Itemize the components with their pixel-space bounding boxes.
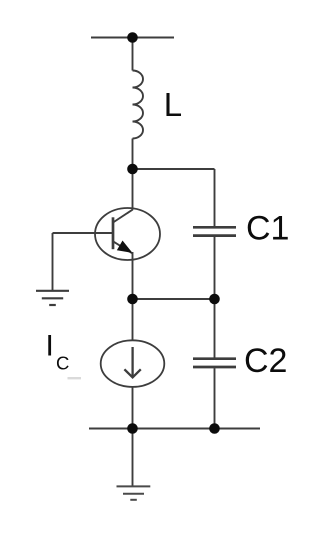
wire: collector (node B to transistor) [132, 169, 134, 210]
wire: current source to bottom rail [132, 387, 134, 429]
wire: C1 bottom plate to node D [214, 237, 216, 299]
wire: bottom rail to ground [132, 429, 134, 486]
wire: base to ground [52, 233, 54, 290]
ground (base) [36, 291, 69, 305]
wire: node D to C2 top plate [214, 299, 216, 358]
node F (bottom rail right) [209, 423, 220, 434]
ground (bottom) [117, 486, 151, 499]
wire: node C to node D [133, 298, 215, 300]
label I_C [46, 330, 82, 380]
svg-text:C2: C2 [244, 342, 287, 380]
wire: rail to inductor top [132, 38, 134, 71]
node A (top rail) [127, 32, 138, 43]
node C (emitter / current source) [127, 294, 138, 305]
node D (C1 / C2 junction) [209, 294, 220, 305]
wire: C2 bottom plate to bottom rail [214, 368, 216, 428]
svg-text:L: L [164, 86, 182, 123]
inductor L [133, 71, 144, 139]
wire: inductor bottom to node B [132, 139, 134, 170]
svg-text:C1: C1 [246, 210, 289, 248]
node E (bottom rail left) [127, 423, 138, 434]
wire: emitter [132, 252, 134, 299]
capacitor C2 [193, 359, 236, 367]
svg-text:C: C [56, 353, 69, 374]
wire: bottom rail [89, 428, 260, 430]
node B (inductor / collector / C1) [127, 164, 138, 175]
wire: down to C1 top plate [214, 169, 216, 226]
capacitor C1 [193, 227, 236, 235]
svg-text:I: I [46, 330, 54, 363]
current source I_C [101, 340, 165, 387]
wire: node B to C1 branch [133, 168, 215, 170]
wire: node C to current source [132, 299, 134, 341]
wire: top supply rail [91, 37, 174, 39]
transistor Q1 [95, 208, 160, 260]
wire: base [53, 232, 114, 234]
